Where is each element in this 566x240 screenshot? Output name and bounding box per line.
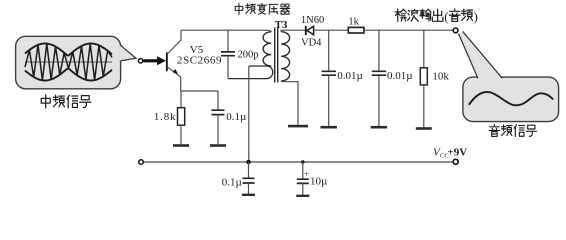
- diode VD4 triangle: [307, 26, 314, 34]
- capacitor 200p plates: [221, 52, 235, 56]
- svg-text:1N60: 1N60: [301, 15, 324, 26]
- audio callout wedge: [459, 31, 503, 79]
- input terminal: [138, 59, 142, 63]
- emitter lead: [168, 67, 181, 91]
- resistor 1k: [348, 27, 364, 33]
- rail terminal left: [139, 160, 144, 165]
- svg-text:10k: 10k: [432, 71, 449, 83]
- ground 0.1u emitter: [210, 144, 226, 147]
- capacitor 10u electrolytic: [302, 162, 304, 179]
- capacitor 0.1u emitter: [217, 91, 219, 110]
- svg-text:+: +: [304, 170, 309, 179]
- collector lead: [168, 30, 181, 53]
- resistor 1.8k: [180, 91, 182, 108]
- capacitor 0.1u rail: [248, 162, 250, 178]
- capacitor 0.01u #1: [328, 30, 330, 71]
- AM carrier zigzag: [25, 44, 112, 81]
- svg-text:0.01µ: 0.01µ: [337, 70, 363, 82]
- AM waveform center line: [25, 61, 112, 63]
- resistor 10k: [423, 30, 425, 68]
- wire 1k to output: [364, 29, 453, 31]
- capacitor C 200p lead top: [227, 30, 229, 52]
- transistor V5 base bar: [166, 52, 168, 71]
- ground 1.8k: [173, 144, 189, 147]
- svg-text:+9V: +9V: [448, 146, 468, 158]
- label jianbo-shuchu: [395, 9, 443, 21]
- wire diode to 1k: [314, 29, 349, 31]
- svg-text:1k: 1k: [348, 16, 359, 27]
- audio sine wave: [469, 92, 552, 105]
- emitter arrow: [173, 69, 178, 74]
- rail terminal right: [453, 159, 458, 164]
- svg-text:0.1µ: 0.1µ: [222, 176, 242, 188]
- signal arrow into base: [144, 56, 167, 65]
- svg-text:VD4: VD4: [301, 37, 322, 48]
- AM waveform envelope top: [25, 44, 112, 56]
- junction dot tank/rail: [246, 160, 251, 165]
- svg-text:0.1µ: 0.1µ: [226, 111, 246, 123]
- junction dot 10u/rail: [301, 160, 305, 164]
- emitter wire to 0.1u: [181, 90, 218, 92]
- label yinpin-xinhao: [489, 125, 536, 137]
- transformer core: [275, 28, 278, 83]
- svg-text:T3: T3: [275, 19, 288, 31]
- capacitor 0.01u #2: [378, 30, 380, 71]
- transformer T3 secondary coil: [281, 32, 290, 81]
- svg-text:): ): [474, 9, 478, 24]
- AM waveform envelope bottom: [25, 68, 112, 80]
- svg-text:200p: 200p: [238, 50, 259, 61]
- secondary top connect: [281, 30, 305, 32]
- diode VD4 cathode bar: [305, 26, 307, 35]
- label yinpin-paren: [449, 9, 472, 21]
- ground secondary: [288, 125, 308, 128]
- capacitor 200p lead bottom: [227, 56, 229, 79]
- ground 0.01u #1: [321, 126, 337, 129]
- IF input callout bubble: [16, 36, 121, 89]
- ground 10u: [296, 195, 309, 197]
- label zhongpin-bianyaqi: [235, 4, 290, 15]
- svg-text:1.8k: 1.8k: [154, 111, 176, 123]
- svg-text:0.01µ: 0.01µ: [387, 70, 413, 82]
- svg-text:(: (: [444, 9, 448, 24]
- Vcc rail: [143, 161, 453, 163]
- secondary bottom connector: [281, 81, 298, 125]
- svg-text:10µ: 10µ: [310, 176, 327, 188]
- svg-text:2SC2669: 2SC2669: [177, 55, 222, 67]
- output terminal: [453, 28, 458, 33]
- callout pointer to input terminal: [120, 46, 136, 61]
- primary bottom curl connector: [228, 66, 272, 79]
- transformer T3 primary coil: [263, 32, 271, 66]
- ground 10k: [416, 127, 432, 130]
- tank bottom vertical to rail: [248, 66, 250, 162]
- ground 0.01u #2: [371, 126, 387, 129]
- audio callout bubble: [463, 77, 559, 122]
- top rail collector to transformer: [181, 30, 271, 32]
- label zhongpin-xinhao: [41, 95, 91, 108]
- ground 0.1u rail: [242, 194, 255, 196]
